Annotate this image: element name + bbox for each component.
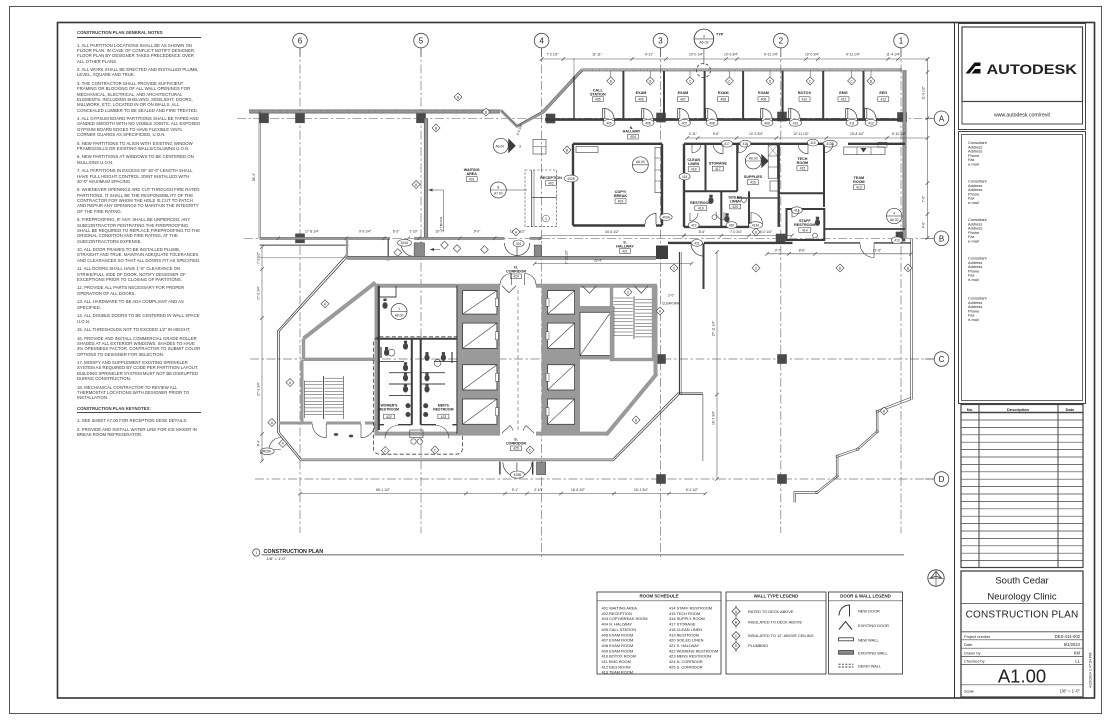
svg-text:DOOR & WALL LEGEND: DOOR & WALL LEGEND: [840, 594, 891, 599]
svg-text:C: C: [939, 355, 945, 364]
toilet: [424, 354, 429, 361]
svg-text:10'-0 3/4": 10'-0 3/4": [724, 52, 739, 56]
elevator shaft: [463, 291, 497, 315]
svg-text:421: 421: [622, 249, 628, 253]
vertical wall at SE corner: [702, 395, 704, 462]
svg-text:420: 420: [732, 205, 738, 209]
toilet fixture: [815, 219, 820, 226]
door arc: [716, 212, 724, 220]
svg-text:B: B: [435, 126, 437, 130]
svg-text:9'-0": 9'-0": [474, 230, 481, 234]
svg-text:Checked by: Checked by: [964, 659, 985, 664]
grid line 5: [420, 48, 422, 533]
svg-text:411: 411: [849, 121, 854, 125]
svg-text:408: 408: [709, 121, 715, 125]
svg-text:27'-11 1/4": 27'-11 1/4": [711, 320, 715, 336]
S corridor entry doors on south wall: [499, 462, 501, 475]
svg-text:65'-1 1/2": 65'-1 1/2": [376, 488, 391, 492]
door and wall legend box: [829, 592, 903, 674]
svg-text:8'-6": 8'-6": [699, 230, 706, 234]
stair room doors: [312, 424, 326, 438]
elevator shaft: [463, 399, 497, 424]
svg-text:425B: 425B: [514, 473, 521, 477]
svg-text:B: B: [415, 183, 417, 187]
svg-text:HALLWAY: HALLWAY: [616, 244, 634, 248]
svg-text:e-mail: e-mail: [968, 277, 979, 282]
svg-text:16'-7 3/4": 16'-7 3/4": [711, 410, 715, 425]
elevator shaft: [548, 291, 575, 315]
core east wall + chamfer: [654, 286, 658, 375]
right vertical dims upper: [927, 59, 929, 238]
svg-text:409: 409: [764, 121, 770, 125]
svg-text:2'-0": 2'-0": [668, 294, 674, 298]
door tag 413B: [823, 140, 837, 147]
svg-text:4/29/2024 1:47:54 PM: 4/29/2024 1:47:54 PM: [1089, 653, 1093, 688]
svg-text:10'-3 3/4": 10'-3 3/4": [749, 132, 764, 136]
wall type tag B: [646, 77, 654, 85]
svg-text:RESTROOM: RESTROOM: [794, 223, 815, 227]
svg-text:403A: 403A: [662, 215, 670, 219]
svg-text:A6.00: A6.00: [749, 156, 758, 160]
svg-text:10'-7": 10'-7": [435, 230, 444, 234]
svg-text:11'-3 1/2": 11'-3 1/2": [922, 85, 926, 99]
hallway 404 south leg walls: [683, 144, 685, 192]
svg-text:PLUMBING: PLUMBING: [748, 643, 768, 648]
column at (782,116.5): [777, 112, 787, 122]
svg-text:2'-10": 2'-10": [409, 230, 418, 234]
svg-text:1: 1: [545, 217, 547, 221]
svg-text:421 S. HALLWAY: 421 S. HALLWAY: [669, 643, 700, 648]
svg-text:10'-0 3/4": 10'-0 3/4": [805, 52, 820, 56]
room schedule entries right column: [669, 606, 718, 670]
door arc: [692, 144, 701, 153]
copy/break room walls: [572, 144, 574, 226]
toilet: [424, 375, 429, 382]
door tag 417: [722, 140, 733, 147]
svg-text:CORRIDOR: CORRIDOR: [506, 442, 526, 446]
svg-text:A: A: [735, 610, 738, 614]
shaft vestibule V doors: [582, 286, 597, 293]
door tag 419: [688, 222, 699, 229]
svg-text:2'-11": 2'-11": [689, 132, 698, 136]
svg-text:418: 418: [682, 175, 688, 179]
svg-text:9'-11 1/4": 9'-11 1/4": [846, 52, 860, 56]
door arc: [707, 109, 717, 119]
core north wall: [377, 284, 501, 288]
door tag 413: [892, 237, 903, 244]
svg-text:16'-1 3/4": 16'-1 3/4": [634, 488, 649, 492]
wall type tag C: [725, 77, 733, 85]
svg-text:8: 8: [497, 185, 499, 189]
svg-text:5: 5: [419, 37, 424, 46]
svg-text:ROOM SCHEDULE: ROOM SCHEDULE: [639, 594, 678, 599]
wall type tag C: [752, 264, 760, 272]
svg-text:TYP: TYP: [716, 33, 724, 37]
door tag 410: [790, 119, 802, 126]
EWC fountains: [410, 430, 423, 438]
left elevator bank: [458, 286, 501, 434]
column at (300,238.3): [295, 234, 305, 244]
svg-text:413: 413: [856, 185, 862, 189]
casework in copy/break: [655, 148, 662, 193]
svg-text:1: 1: [255, 551, 257, 555]
demo wall symbol: [839, 664, 854, 667]
door 424A arc: [401, 243, 414, 256]
door arc: [679, 109, 689, 119]
wall type tag B: [867, 77, 875, 85]
svg-text:B: B: [610, 79, 612, 83]
svg-text:7'-9": 7'-9": [922, 195, 926, 202]
wall type tag A: [279, 439, 287, 447]
svg-text:420: 420: [729, 224, 735, 228]
door 413A arc: [751, 213, 763, 225]
svg-text:7'-2 1/2": 7'-2 1/2": [546, 52, 559, 56]
svg-text:Drawn by: Drawn by: [964, 650, 980, 655]
door arc: [604, 109, 614, 119]
svg-text:BOTOX: BOTOX: [798, 91, 812, 95]
toilet: [403, 386, 408, 393]
exterior boundary lower block: [278, 254, 704, 460]
door tag 416: [740, 140, 751, 147]
svg-text:10'-0 1/4": 10'-0 1/4": [689, 52, 704, 56]
toilet fixture: [724, 216, 729, 223]
svg-text:8'-6": 8'-6": [799, 249, 806, 253]
new wall symbol: [839, 638, 854, 641]
svg-text:3: 3: [703, 34, 705, 38]
svg-text:RATED TO DECK ABOVE: RATED TO DECK ABOVE: [748, 609, 794, 614]
sink: [423, 412, 428, 417]
svg-text:B: B: [635, 418, 637, 422]
svg-text:AUTODESK: AUTODESK: [987, 61, 1078, 77]
svg-text:409 EXAM ROOM: 409 EXAM ROOM: [602, 648, 634, 653]
sink: [423, 403, 428, 408]
svg-text:A8.00: A8.00: [395, 313, 404, 317]
ENDPLAN: [253, 549, 904, 561]
svg-text:NEW DOOR: NEW DOOR: [858, 608, 880, 613]
toilet: [384, 349, 389, 356]
wall type tag C: [670, 264, 678, 272]
svg-text:6: 6: [298, 37, 303, 46]
restroom entry doors: [385, 426, 398, 439]
door tag 424A: [398, 239, 412, 246]
staff restroom walls: [787, 209, 825, 240]
svg-text:422: 422: [386, 415, 392, 419]
svg-text:420 SOILED LINEN: 420 SOILED LINEN: [669, 638, 704, 643]
grid line B: [244, 237, 934, 239]
tech room walls: [779, 192, 824, 194]
logo inner box: [962, 27, 1083, 102]
autodesk logo mark: [966, 63, 981, 74]
door tag 418: [679, 173, 690, 180]
svg-text:415 TECH ROOM: 415 TECH ROOM: [669, 611, 700, 616]
svg-text:LL: LL: [1075, 659, 1080, 664]
door arc: [824, 144, 833, 153]
svg-text:e-mail: e-mail: [968, 239, 979, 244]
door arc: [792, 210, 799, 217]
svg-text:RESTROOM: RESTROOM: [690, 201, 711, 205]
column at (421,118.3): [416, 114, 426, 124]
wall type tag B: [607, 77, 615, 85]
waiting area inner south wall: [260, 244, 349, 246]
svg-text:B: B: [939, 234, 944, 243]
grid line 3: [660, 48, 662, 560]
sinks: [712, 215, 717, 220]
svg-text:D: D: [735, 644, 738, 648]
svg-text:No.: No.: [967, 407, 973, 412]
svg-text:17'-2 3/4": 17'-2 3/4": [257, 285, 261, 300]
left stair: [305, 378, 344, 414]
svg-text:A6.00: A6.00: [636, 160, 645, 164]
reception casework: [533, 140, 546, 155]
svg-text:413A: 413A: [752, 224, 760, 228]
svg-text:LINEN: LINEN: [688, 162, 699, 166]
wall type tag A: [286, 379, 294, 387]
toilet fixture: [708, 197, 713, 204]
call station west wall: [573, 76, 575, 120]
door arc: [790, 109, 800, 119]
column at (782,479): [777, 474, 787, 484]
svg-text:425A: 425A: [263, 450, 271, 454]
svg-text:e-mail: e-mail: [968, 200, 979, 205]
svg-text:407: 407: [680, 97, 686, 101]
svg-text:1: 1: [398, 307, 400, 311]
section tag A6.00/: [745, 153, 761, 169]
svg-text:412 EEG ROOM: 412 EEG ROOM: [602, 664, 631, 669]
stair room north wall: [304, 358, 377, 361]
elevator lobby doors: [500, 274, 512, 286]
svg-text:406 EXAM ROOM: 406 EXAM ROOM: [602, 632, 634, 637]
svg-text:417 STORAGE: 417 STORAGE: [669, 622, 696, 627]
team room casework: [844, 147, 885, 155]
toilet: [441, 354, 446, 361]
door tag 403A: [660, 214, 672, 221]
svg-text:3'-7": 3'-7": [775, 249, 782, 253]
svg-text:South Cedar: South Cedar: [995, 576, 1048, 587]
wall type tag D: [752, 228, 760, 236]
svg-text:HALLWAY: HALLWAY: [623, 130, 641, 134]
existing door symbol: [839, 622, 852, 630]
second dimension row: [687, 137, 927, 139]
grid line A: [237, 117, 934, 119]
svg-text:11'-4 1/4": 11'-4 1/4": [886, 52, 900, 56]
svg-text:6'-0 1/4": 6'-0 1/4": [760, 230, 773, 234]
svg-text:56'-4": 56'-4": [252, 172, 256, 181]
section marker A6.00/3: [493, 138, 508, 153]
svg-text:407 EXAM ROOM: 407 EXAM ROOM: [602, 638, 634, 643]
wall type diamond A: [732, 605, 740, 651]
svg-text:417: 417: [715, 167, 721, 171]
svg-text:INSULATED TO DECK ABOVE: INSULATED TO DECK ABOVE: [748, 620, 802, 625]
svg-text:6'-0 1/2": 6'-0 1/2": [686, 488, 699, 492]
svg-text:KM: KM: [1074, 650, 1081, 655]
column at (900.5,236.5): [896, 232, 906, 242]
svg-text:B: B: [883, 409, 885, 413]
svg-text:408: 408: [720, 97, 726, 101]
svg-text:A1.00: A1.00: [998, 666, 1046, 687]
wall type tag C: [686, 77, 694, 85]
room schedule entries left column: [602, 606, 648, 675]
toilet: [403, 343, 408, 350]
stair room south wall with doors: [279, 422, 312, 425]
svg-text:418 CLEAN LINEN: 418 CLEAN LINEN: [669, 627, 702, 632]
exam room divider walls: [622, 71, 624, 120]
door tag 406: [642, 119, 654, 126]
svg-text:CLEAR MIN.: CLEAR MIN.: [662, 302, 680, 306]
door arc: [643, 109, 653, 119]
svg-text:411: 411: [841, 97, 847, 101]
restroom block walls: [378, 286, 380, 430]
entry alcove walls: [346, 239, 348, 258]
column at (780.6,238.5): [776, 234, 786, 244]
wall type legend box: [726, 592, 826, 674]
svg-text:401: 401: [469, 177, 475, 181]
svg-text:402 RECEPTION: 402 RECEPTION: [602, 611, 632, 616]
svg-text:15'-8 1/4": 15'-8 1/4": [850, 132, 865, 136]
door tag 413A: [749, 222, 763, 229]
core south wall: [375, 432, 501, 436]
svg-text:EXAM: EXAM: [718, 91, 729, 95]
column at (782,359): [777, 354, 787, 364]
exterior west wall upper: [258, 112, 260, 239]
north arrow: [928, 570, 944, 586]
svg-text:404 N. HALLWAY: 404 N. HALLWAY: [602, 622, 633, 627]
wall type tag C: [431, 446, 439, 454]
svg-text:403 COPY/BREAK ROOM: 403 COPY/BREAK ROOM: [602, 616, 648, 621]
svg-text:AREA: AREA: [466, 172, 477, 176]
section tag 1/A8.00: [391, 304, 407, 320]
column at (264,118.3): [259, 114, 269, 124]
door tag 411: [846, 119, 858, 126]
demising wall on grid 5: [424, 119, 428, 240]
door arc: [690, 213, 698, 221]
wall type tag C: [624, 288, 632, 296]
svg-text:D: D: [939, 475, 945, 484]
svg-text:413 TEAM ROOM: 413 TEAM ROOM: [602, 670, 634, 675]
svg-text:A6.02: A6.02: [699, 41, 708, 45]
stall partitions: [379, 360, 404, 362]
svg-text:425 S. CORRIDOR: 425 S. CORRIDOR: [669, 664, 703, 669]
svg-text:STORAGE: STORAGE: [709, 162, 728, 166]
toilet: [424, 386, 429, 393]
svg-text:LINEN: LINEN: [730, 200, 741, 204]
svg-text:34'-6 1/2": 34'-6 1/2": [605, 230, 620, 234]
exterior east wall lower: [910, 239, 912, 400]
bottom dimension row: [300, 493, 705, 495]
svg-text:EXISTING WALL: EXISTING WALL: [858, 650, 889, 655]
svg-text:4: 4: [893, 211, 895, 215]
exterior window wall north of waiting area: [249, 110, 500, 113]
svg-text:3: 3: [519, 144, 521, 148]
consultant outer box: [959, 132, 1086, 404]
room schedule box: [597, 592, 721, 674]
section tag 8/A7.00 with leader: [506, 189, 527, 191]
svg-text:405: 405: [595, 97, 601, 101]
svg-text:409: 409: [761, 97, 767, 101]
svg-text:403: 403: [618, 199, 624, 203]
svg-text:405: 405: [606, 121, 612, 125]
svg-text:419: 419: [698, 206, 704, 210]
svg-text:423 MENS RESTROOM: 423 MENS RESTROOM: [669, 654, 711, 659]
column at (550.5,118.5): [546, 114, 556, 124]
grid line 4: [541, 48, 543, 560]
svg-text:406: 406: [638, 97, 644, 101]
web address box: [962, 102, 1083, 125]
storefront jambs: [414, 243, 424, 257]
door tag 401: [513, 240, 524, 247]
wall type tag B: [482, 108, 490, 116]
svg-text:B: B: [649, 79, 651, 83]
existing wall symbol: [839, 651, 854, 655]
svg-text:12'-11 1/2": 12'-11 1/2": [793, 132, 809, 136]
svg-text:33'-4": 33'-4": [594, 258, 603, 262]
right lower dimension row: [767, 253, 911, 255]
toilet: [403, 375, 408, 382]
svg-text:416 SUPPLY ROOM: 416 SUPPLY ROOM: [669, 616, 705, 621]
view title underline: [262, 554, 905, 556]
svg-text:425: 425: [513, 447, 519, 451]
svg-text:CONSTRUCTION PLAN: CONSTRUCTION PLAN: [966, 610, 1079, 621]
svg-text:Description: Description: [1007, 407, 1030, 412]
door tag 420: [726, 222, 737, 229]
upper accessible stall: [379, 296, 396, 298]
svg-text:27'-3 3/4": 27'-3 3/4": [257, 381, 261, 396]
entry door 401 double arcs: [505, 243, 518, 256]
svg-text:418: 418: [691, 167, 697, 171]
svg-text:EXAM: EXAM: [678, 91, 689, 95]
svg-text:410: 410: [802, 97, 808, 101]
svg-text:404: 404: [630, 135, 636, 139]
svg-text:421: 421: [694, 241, 700, 245]
svg-text:ROOM: ROOM: [853, 180, 864, 184]
svg-text:6'-3": 6'-3": [393, 230, 400, 234]
elevator shaft: [548, 323, 575, 348]
diamond on grid5 wall: [412, 181, 420, 189]
alcove diamonds: [441, 241, 449, 249]
enlarged plan dashed callout: [373, 337, 462, 454]
svg-text:STATION: STATION: [590, 93, 606, 97]
svg-text:NEW WALL: NEW WALL: [858, 637, 879, 642]
door arc: [798, 144, 808, 154]
wall type tag B: [836, 264, 844, 272]
svg-text:4'-8": 4'-8": [922, 221, 926, 228]
svg-text:9'-11 1/4": 9'-11 1/4": [764, 52, 778, 56]
wall type tag A: [512, 228, 520, 236]
svg-text:3: 3: [658, 37, 663, 46]
door arc: [713, 144, 723, 154]
svg-text:9'-9 1/4": 9'-9 1/4": [359, 230, 372, 234]
wall type tag B: [632, 416, 640, 424]
svg-text:417: 417: [724, 142, 730, 146]
align note arrows: [429, 190, 444, 232]
right stair: [612, 286, 654, 360]
sheet title box: [961, 571, 1083, 697]
alcove annotation arrow: [430, 249, 440, 251]
svg-text:1/8" = 1'-0": 1/8" = 1'-0": [267, 556, 287, 561]
svg-text:A6.00: A6.00: [495, 144, 504, 148]
svg-text:408 EXAM ROOM: 408 EXAM ROOM: [602, 643, 634, 648]
svg-text:413: 413: [894, 239, 900, 243]
clean linen / storage / supplies walls: [705, 144, 707, 192]
svg-text:EXAM: EXAM: [636, 91, 647, 95]
oval tag 425A: [260, 448, 274, 455]
svg-text:A6.02: A6.02: [890, 218, 899, 222]
section tag 4/A6.02: [887, 208, 902, 223]
svg-text:WALL TYPE LEGEND: WALL TYPE LEGEND: [754, 594, 799, 599]
door arc: [738, 144, 747, 153]
door tag 405: [603, 119, 615, 126]
column at (300,118.3): [295, 114, 305, 124]
door tag 407: [679, 119, 691, 126]
